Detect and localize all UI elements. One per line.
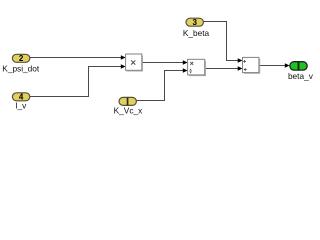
svg-text:I_v: I_v	[15, 101, 27, 111]
sum plus pin label 1	[243, 60, 246, 63]
svg-text:3: 3	[192, 18, 197, 27]
svg-text:2: 2	[19, 54, 24, 63]
product P2 multiply pin label	[190, 62, 193, 65]
wire port2 to product P1	[30, 57, 122, 59]
wire K_Vc_x to product P2	[136, 71, 184, 101]
svg-text:beta_v: beta_v	[288, 71, 314, 81]
inport 1 oval K_Vc_x	[119, 97, 136, 105]
product block P2 shadow	[189, 61, 206, 76]
sum block shadow	[244, 59, 260, 74]
product block P1 shadow	[127, 56, 144, 72]
wire port4 to product P1	[30, 67, 122, 97]
inport 3 oval	[186, 18, 203, 26]
product block P1	[126, 54, 142, 70]
product P2 divide pin label	[189, 70, 192, 72]
svg-text:K_psi_dot: K_psi_dot	[2, 64, 40, 74]
product P1 multiply symbol	[131, 60, 135, 64]
inport 1 number	[127, 98, 129, 106]
wire product P1 to product P2	[142, 62, 184, 64]
outport 1 oval beta_v	[290, 62, 307, 70]
sum block	[243, 57, 259, 72]
svg-text:K_beta: K_beta	[183, 28, 210, 38]
inport 4 oval	[12, 93, 29, 101]
wire sum to outport beta_v	[259, 65, 286, 67]
sum plus pin label 2	[244, 68, 247, 71]
product block P2	[188, 59, 205, 75]
wire K_beta to sum	[204, 22, 239, 61]
svg-text:K_Vc_x: K_Vc_x	[114, 105, 143, 115]
wire product P2 to sum	[205, 68, 239, 70]
inport 2 oval	[12, 54, 29, 62]
outport 1 number	[298, 62, 300, 70]
